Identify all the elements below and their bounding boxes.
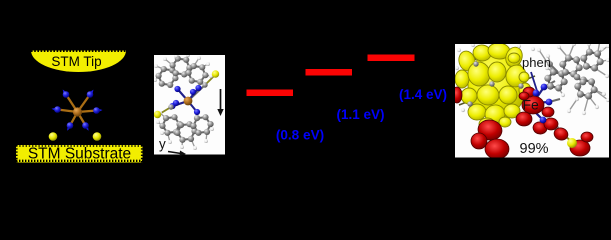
svg-text:Fe: Fe — [523, 97, 540, 113]
svg-text:99%: 99% — [520, 141, 549, 157]
svg-text:STM Substrate: STM Substrate — [28, 146, 131, 163]
svg-text:phen: phen — [522, 55, 551, 70]
svg-text:(1.1 eV): (1.1 eV) — [336, 107, 384, 122]
svg-text:(1.4 eV): (1.4 eV) — [399, 87, 447, 102]
svg-text:(0.8 eV): (0.8 eV) — [276, 128, 324, 143]
svg-text:y: y — [159, 137, 166, 152]
svg-text:STM Tip: STM Tip — [51, 54, 101, 69]
